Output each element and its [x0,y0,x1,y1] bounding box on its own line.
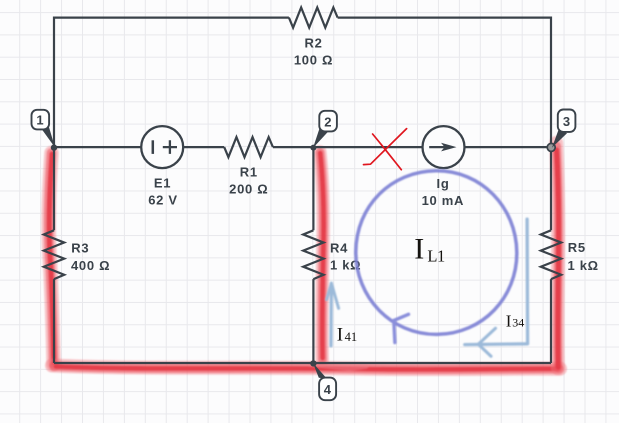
resistor R4 [303,230,323,279]
node 4 [313,363,336,401]
label IL1 [414,233,445,266]
svg-text:3: 3 [563,114,571,129]
current arrow I34 [465,219,528,356]
svg-text:I: I [414,233,424,266]
svg-text:R2: R2 [304,36,322,51]
svg-text:Ig: Ig [437,176,450,191]
label I41 [337,325,357,346]
voltage source E1 [141,126,183,168]
junction node 3 [547,143,555,151]
wire bottom node4 run [54,362,551,364]
svg-text:I: I [506,312,512,331]
wire left vertical node1 up [53,17,55,148]
svg-text:R4: R4 [330,241,348,256]
resistor R1 [224,137,273,157]
svg-text:200 Ω: 200 Ω [229,182,268,197]
highlighter stroke right branch node3-node4 [556,143,558,368]
svg-text:1 kΩ: 1 kΩ [568,258,599,273]
svg-text:R1: R1 [240,164,258,179]
svg-text:400 Ω: 400 Ω [71,258,110,273]
svg-text:1: 1 [36,113,44,128]
junction node 2 [310,145,316,151]
current source Ig [423,126,465,168]
svg-text:I: I [337,325,343,346]
svg-text:R5: R5 [568,240,586,255]
svg-text:41: 41 [345,330,358,344]
X mark over wire node2-node3 [364,129,407,170]
svg-text:100 Ω: 100 Ω [294,52,333,67]
wire middle node2 to node3 [313,146,551,148]
highlighter stroke left branch node1-node4 [49,153,54,364]
svg-text:L1: L1 [427,247,445,266]
highlighter stroke node2 branch node2-node4 [320,152,324,360]
svg-text:R3: R3 [71,240,89,255]
svg-text:62 V: 62 V [148,193,178,208]
node 2 [313,111,337,148]
svg-text:E1: E1 [154,175,171,190]
resistor R5 [541,230,561,279]
wire branch node3 down [550,147,552,363]
svg-text:10 mA: 10 mA [422,193,465,208]
loop current IL1 [356,171,517,343]
resistor R2 [289,8,338,28]
svg-text:4: 4 [324,382,332,397]
current arrow I41 [327,283,339,346]
junction node 4 [310,360,316,366]
wire branch node2 down [312,147,314,363]
svg-text:2: 2 [324,114,332,129]
resistor R3 [44,230,64,279]
node 3 [552,110,575,148]
label I34 [506,312,524,331]
svg-text:34: 34 [512,316,524,330]
junction node 1 [51,144,57,150]
wire top node1 to node3 via R2 [54,17,551,19]
node 1 [32,110,56,148]
highlighter stroke bottom wire node4 run [52,365,560,370]
wire right vertical top to node3 [550,17,552,148]
wire branch node1 down [53,147,55,363]
wire middle node1 to node2 [54,146,313,148]
